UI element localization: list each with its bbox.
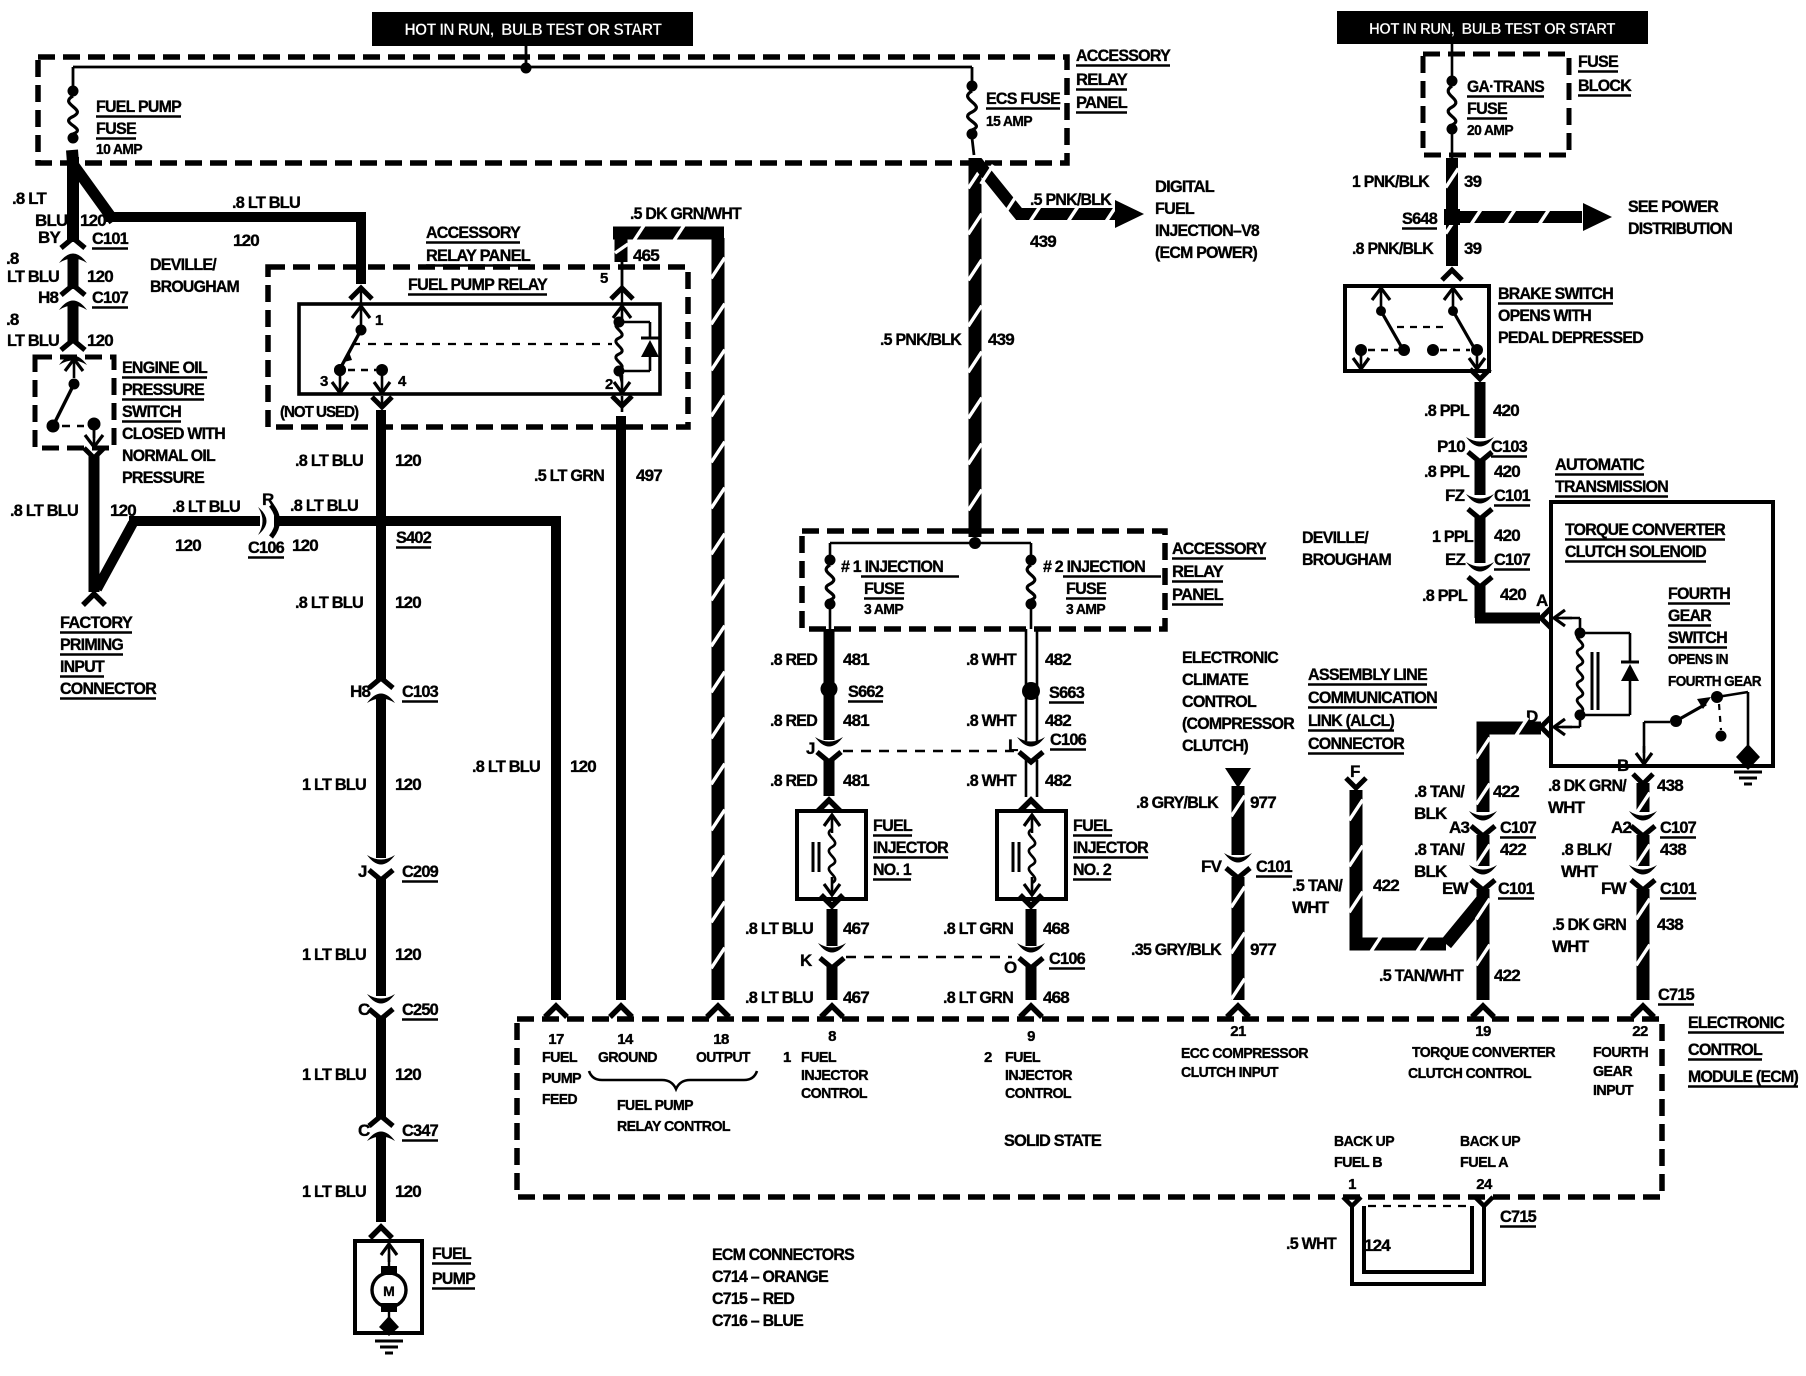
- svg-text:PANEL: PANEL: [1076, 93, 1127, 112]
- svg-text:L: L: [1008, 736, 1018, 755]
- svg-text:BACK UP: BACK UP: [1334, 1133, 1395, 1150]
- svg-text:RELAY CONTROL: RELAY CONTROL: [617, 1118, 730, 1135]
- relay coil: [613, 306, 631, 377]
- no.2 injection fuse 3 AMP: [1026, 543, 1037, 629]
- label ASSEMBLY LINE COMMUNICATION LINK (ALCL) CONNECTOR: [1308, 665, 1437, 754]
- label .5 DK GRN WHT 438: [1552, 915, 1683, 956]
- svg-text:C107: C107: [1500, 818, 1536, 837]
- label FUEL PUMP FUSE 10 AMP: [96, 97, 181, 158]
- svg-text:PUMP: PUMP: [432, 1269, 475, 1288]
- svg-text:BY: BY: [38, 228, 61, 247]
- wire end cup at ECM pin 17: [545, 1006, 567, 1017]
- svg-text:.8 WHT: .8 WHT: [966, 711, 1017, 730]
- svg-text:.8 RED: .8 RED: [770, 711, 817, 730]
- connector cup at fuel pump: [370, 1227, 392, 1238]
- svg-text:NORMAL OIL: NORMAL OIL: [122, 446, 215, 465]
- svg-text:O: O: [1004, 958, 1017, 977]
- ECC arrow terminal: [1225, 768, 1251, 788]
- svg-text:124: 124: [1364, 1236, 1391, 1255]
- svg-text:C103: C103: [402, 682, 438, 701]
- fuel pump fuse 10 AMP: [68, 67, 79, 144]
- svg-text:INJECTOR: INJECTOR: [873, 838, 948, 857]
- svg-text:481: 481: [843, 711, 869, 730]
- brake switch pole 1: [1353, 288, 1410, 369]
- svg-text:9: 9: [1027, 1028, 1035, 1045]
- connector cup at relay pin 5: [611, 288, 633, 299]
- svg-text:S662: S662: [848, 682, 883, 701]
- svg-text:1 LT BLU: 1 LT BLU: [302, 775, 366, 794]
- wire end cup at ECM pin 8: [821, 1006, 843, 1017]
- svg-text:OPENS WITH: OPENS WITH: [1498, 306, 1591, 325]
- svg-text:.8 PPL: .8 PPL: [1424, 462, 1469, 481]
- svg-text:GEAR: GEAR: [1593, 1063, 1633, 1080]
- svg-text:.8 LT BLU: .8 LT BLU: [232, 193, 300, 212]
- wire .8 TAN/BLK 422 striped from D to A3 C107: [1476, 718, 1541, 812]
- svg-text:FUEL: FUEL: [1005, 1049, 1040, 1066]
- svg-text:INJECTOR: INJECTOR: [1005, 1067, 1073, 1084]
- label FACTORY PRIMING INPUT CONNECTOR: [60, 613, 156, 699]
- wire end cup at ECM pin 21: [1227, 1006, 1249, 1017]
- labels .8 LT GRN 468 O C106: [943, 919, 1085, 1007]
- svg-text:HOT IN RUN, BULB TEST OR STAR: HOT IN RUN, BULB TEST OR START: [1369, 21, 1616, 38]
- wire from banner to bus: [521, 46, 532, 74]
- svg-text:PRIMING: PRIMING: [60, 635, 124, 654]
- wire .8 LT BLU between C107 and oil pressure switch: [68, 304, 79, 342]
- label # 2 INJECTION FUSE 3 AMP: [1043, 557, 1161, 618]
- svg-text:420: 420: [1494, 526, 1520, 545]
- connector cup at injector 1: [818, 800, 840, 811]
- svg-text:.8 TAN/: .8 TAN/: [1414, 782, 1465, 801]
- svg-text:BLK: BLK: [1414, 804, 1448, 823]
- svg-text:17: 17: [548, 1031, 564, 1048]
- label ACCESSORY RELAY PANEL (at fuel pump relay): [426, 223, 530, 266]
- ECM pin 8 label: [783, 1028, 869, 1102]
- svg-text:.5 DK GRN: .5 DK GRN: [1552, 915, 1626, 934]
- svg-text:B: B: [1617, 756, 1629, 775]
- ECM pin 22 label: [1593, 1023, 1648, 1099]
- svg-text:DIGITAL: DIGITAL: [1155, 177, 1214, 196]
- bus wire inside panel: [73, 66, 972, 69]
- ground at fuel pump: [375, 1341, 403, 1353]
- fuel pump box: [355, 1241, 422, 1333]
- connector C103 (P10): [1437, 437, 1527, 462]
- label .5 WHT 124: [1286, 1234, 1391, 1255]
- ground at fourth gear switch: [1734, 744, 1762, 784]
- connector C101 (BY): [59, 238, 87, 263]
- wire .8 LT BLU 120 from fuel pump fuse to fuel pump relay pin 1: [70, 150, 366, 284]
- fuel injector no.2 coil: [1013, 815, 1040, 895]
- svg-text:C715 – RED: C715 – RED: [712, 1289, 794, 1308]
- svg-text:NO. 1: NO. 1: [873, 860, 911, 879]
- svg-text:FEED: FEED: [542, 1091, 578, 1108]
- wire .5 DK GRN/WHT 465 from relay pin 5 to ECM pin 18: [613, 223, 725, 1000]
- svg-text:ECS FUSE: ECS FUSE: [986, 89, 1060, 108]
- svg-text:CLUTCH SOLENOID: CLUTCH SOLENOID: [1565, 542, 1706, 561]
- label .8 LT BLU 120 (horizontal run): [232, 193, 300, 250]
- svg-text:482: 482: [1045, 711, 1071, 730]
- svg-text:SWITCH: SWITCH: [122, 402, 181, 421]
- label BACK UP FUEL A 24: [1460, 1133, 1521, 1193]
- svg-text:120: 120: [292, 536, 318, 555]
- svg-text:.35 GRY/BLK: .35 GRY/BLK: [1131, 940, 1222, 959]
- svg-text:TORQUE CONVERTER: TORQUE CONVERTER: [1412, 1044, 1556, 1061]
- connector cup below brake switch: [1470, 369, 1490, 379]
- svg-text:.8 WHT: .8 WHT: [966, 650, 1017, 669]
- svg-text:MODULE (ECM): MODULE (ECM): [1688, 1067, 1798, 1086]
- svg-text:4: 4: [398, 373, 407, 390]
- label .8 RED 481 (lower): [770, 771, 869, 790]
- svg-text:CONTROL: CONTROL: [1182, 692, 1256, 711]
- svg-text:WHT: WHT: [1548, 798, 1586, 817]
- svg-text:RELAY: RELAY: [1076, 70, 1128, 89]
- wire .5 TAN/WHT 422 from EW to ECM pin 19: [1476, 889, 1490, 1000]
- svg-text:C101: C101: [1660, 879, 1696, 898]
- svg-text:# 2 INJECTION: # 2 INJECTION: [1043, 557, 1145, 576]
- label .8 PPL 420 (C103-C101): [1424, 462, 1520, 481]
- wire 1 LT BLU between C103 and C209: [376, 698, 386, 858]
- svg-text:RELAY PANEL: RELAY PANEL: [426, 246, 530, 265]
- svg-text:120: 120: [395, 593, 421, 612]
- svg-text:120: 120: [80, 211, 106, 230]
- label S402: [396, 528, 431, 548]
- svg-text:439: 439: [1030, 232, 1056, 251]
- label .5 TAN/WHT 422 (horizontal): [1379, 966, 1520, 985]
- svg-text:.8 LT BLU: .8 LT BLU: [295, 593, 363, 612]
- svg-text:120: 120: [395, 1065, 421, 1084]
- wire .8 PPL 420 to terminal A: [1475, 586, 1540, 618]
- wire 1 PPL 420 C101 to C107: [1475, 518, 1486, 563]
- wire .8 LT BLU 120 horizontal through C106 and S402: [129, 516, 560, 526]
- relay switch arm: [334, 325, 367, 377]
- label FUEL PUMP RELAY CONTROL: [617, 1097, 730, 1135]
- svg-text:.8: .8: [6, 249, 19, 268]
- svg-text:(ECM POWER): (ECM POWER): [1155, 243, 1257, 262]
- svg-text:.8 PPL: .8 PPL: [1422, 586, 1467, 605]
- wire from banner to fuse block: [1451, 44, 1454, 77]
- wire 1 PNK/BLK 39 from fuse block to S648: [1446, 158, 1459, 266]
- connector C101 (EW): [1442, 865, 1534, 899]
- svg-text:422: 422: [1494, 966, 1520, 985]
- svg-text:.8 LT: .8 LT: [12, 189, 47, 208]
- wire from relay pin 4 to fuel pump: [372, 396, 392, 680]
- svg-text:18: 18: [713, 1031, 729, 1048]
- svg-text:10 AMP: 10 AMP: [96, 142, 143, 158]
- connector C101 (FZ): [1445, 486, 1530, 519]
- label ELECTRONIC CONTROL MODULE (ECM): [1688, 1013, 1798, 1087]
- svg-text:ECC COMPRESSOR: ECC COMPRESSOR: [1181, 1045, 1309, 1062]
- svg-text:.8 LT BLU: .8 LT BLU: [295, 451, 363, 470]
- wire end at factory priming connector: [83, 594, 105, 605]
- svg-text:BACK UP: BACK UP: [1460, 1133, 1521, 1150]
- label DEVILLE/BROUGHAM (right): [1302, 528, 1392, 569]
- label .8 LT BLU BY / 120 at C101: [12, 189, 128, 249]
- label .5 TAN/ WHT 422: [1292, 876, 1399, 917]
- svg-text:.8 LT GRN: .8 LT GRN: [943, 988, 1013, 1007]
- svg-text:CONTROL: CONTROL: [1005, 1085, 1071, 1102]
- wire 1 LT BLU between C209 and C250: [376, 879, 386, 996]
- ECM pin 17 label: [542, 1031, 582, 1108]
- svg-text:.8 BLK/: .8 BLK/: [1561, 840, 1612, 859]
- svg-text:.8 TAN/: .8 TAN/: [1414, 840, 1465, 859]
- svg-text:3 AMP: 3 AMP: [1066, 602, 1106, 618]
- label ECM CONNECTORS legend: [712, 1245, 854, 1330]
- automatic transmission box: [1551, 502, 1773, 766]
- fuse block box: [1423, 54, 1569, 155]
- svg-text:TRANSMISSION: TRANSMISSION: [1555, 477, 1668, 496]
- svg-text:.8 LT BLU: .8 LT BLU: [472, 757, 540, 776]
- svg-text:977: 977: [1250, 940, 1276, 959]
- svg-text:CLUTCH INPUT: CLUTCH INPUT: [1181, 1064, 1278, 1081]
- wire .8 LT BLU 467 from injector 1 to ECM pin 8: [827, 909, 838, 1000]
- labels .8 RED 481 S662: [770, 650, 883, 730]
- svg-text:1 LT BLU: 1 LT BLU: [302, 1065, 366, 1084]
- svg-text:# 1 INJECTION: # 1 INJECTION: [841, 557, 943, 576]
- svg-text:GEAR: GEAR: [1668, 606, 1711, 625]
- label 1 LT BLU 120 (above pump): [302, 1182, 421, 1201]
- label .8 WHT 482 (lower): [966, 771, 1071, 790]
- wire end cup at ECM pin 22: [1632, 1006, 1654, 1017]
- svg-text:C107: C107: [92, 288, 128, 307]
- svg-text:.8 PPL: .8 PPL: [1424, 401, 1469, 420]
- dashed connector line J to L: [843, 750, 1014, 752]
- svg-text:F: F: [1350, 762, 1360, 781]
- wire .8 LT BLU 120 to ECM pin 17 (fuel pump feed): [551, 516, 561, 1000]
- svg-text:420: 420: [1493, 401, 1519, 420]
- svg-text:.8 DK GRN/: .8 DK GRN/: [1548, 776, 1627, 795]
- labels .8 WHT 482 S663: [966, 650, 1084, 730]
- svg-text:420: 420: [1500, 585, 1526, 604]
- svg-text:FUEL: FUEL: [432, 1244, 471, 1263]
- brace fuel pump relay control: [589, 1071, 757, 1089]
- svg-text:5: 5: [600, 270, 608, 287]
- accessory relay panel box (top): [38, 57, 1067, 163]
- connector C107 (A3): [1449, 811, 1536, 838]
- svg-text:INJECTOR: INJECTOR: [1073, 838, 1148, 857]
- splice S648: [1402, 209, 1460, 229]
- svg-text:INJECTOR: INJECTOR: [801, 1067, 869, 1084]
- svg-text:LINK (ALCL): LINK (ALCL): [1308, 711, 1394, 730]
- svg-text:.5 WHT: .5 WHT: [1286, 1234, 1337, 1253]
- svg-text:.8 RED: .8 RED: [770, 650, 817, 669]
- accessory relay panel box (fuel pump relay): [268, 267, 688, 427]
- svg-text:C101: C101: [1494, 486, 1530, 505]
- label GA-TRANS FUSE 20 AMP: [1467, 77, 1544, 139]
- label DIGITAL FUEL INJECTION-V8 (ECM POWER): [1155, 177, 1259, 262]
- wire .8 BLK/WHT 438 from C107 to C101 (FW): [1636, 835, 1650, 866]
- svg-text:.8 WHT: .8 WHT: [966, 771, 1017, 790]
- svg-text:INJECTION–V8: INJECTION–V8: [1155, 221, 1259, 240]
- svg-text:C715: C715: [1658, 985, 1694, 1004]
- svg-text:FUEL: FUEL: [873, 816, 912, 835]
- svg-text:FUSE: FUSE: [1467, 99, 1507, 118]
- svg-text:NO. 2: NO. 2: [1073, 860, 1111, 879]
- svg-text:SWITCH: SWITCH: [1668, 628, 1727, 647]
- fourth gear switch: [1636, 691, 1748, 764]
- svg-text:C106: C106: [1049, 949, 1085, 968]
- label BRAKE SWITCH OPENS WITH PEDAL DEPRESSED: [1498, 284, 1643, 347]
- relay pin 1 terminal: [352, 306, 383, 329]
- svg-text:422: 422: [1373, 876, 1399, 895]
- svg-text:C106: C106: [1050, 730, 1086, 749]
- svg-text:.5 TAN/: .5 TAN/: [1292, 876, 1343, 895]
- svg-text:C: C: [358, 1121, 370, 1140]
- svg-text:(COMPRESSOR: (COMPRESSOR: [1182, 714, 1294, 733]
- connector cup at relay pin 2: [612, 396, 632, 406]
- svg-text:FV: FV: [1201, 857, 1223, 876]
- TCC solenoid coil: [1562, 618, 1598, 721]
- svg-text:1 PNK/BLK: 1 PNK/BLK: [1352, 172, 1430, 191]
- svg-text:1: 1: [783, 1049, 791, 1066]
- svg-text:S648: S648: [1402, 209, 1437, 228]
- label .8 PPL 420 A: [1422, 585, 1548, 610]
- wire .8 LT GRN 468 from injector 2 to ECM pin 9: [1026, 909, 1037, 1000]
- svg-text:120: 120: [570, 757, 596, 776]
- ECM pin 14 label: [598, 1031, 658, 1066]
- label .8 DK GRN/ WHT 438: [1548, 776, 1683, 817]
- labels .8 LT BLU 467 K: [745, 919, 869, 1007]
- label SOLID STATE: [1004, 1131, 1101, 1150]
- svg-text:21: 21: [1230, 1023, 1246, 1040]
- relay pin 2 terminal: [605, 371, 630, 393]
- svg-text:C101: C101: [1498, 879, 1534, 898]
- svg-text:497: 497: [636, 466, 662, 485]
- label .8 PNK/BLK 39: [1352, 239, 1482, 258]
- label FUSE BLOCK: [1578, 52, 1632, 96]
- svg-text:120: 120: [395, 1182, 421, 1201]
- label .8 LT BLU 120 above oil pressure switch: [6, 310, 113, 350]
- fuel injector no.1 box: [797, 811, 866, 899]
- wire .8 DK GRN/WHT 438 from B to A2 C107: [1636, 783, 1650, 813]
- connector C107 (EZ): [1445, 550, 1530, 587]
- svg-text:BLOCK: BLOCK: [1578, 76, 1632, 95]
- svg-text:C716 – BLUE: C716 – BLUE: [712, 1311, 803, 1330]
- label .8 LT BLU 120 (above C103): [295, 593, 421, 612]
- label .5 PNK/BLK 439 (arrow): [1030, 190, 1112, 251]
- label AUTOMATIC TRANSMISSION: [1555, 455, 1668, 497]
- wire end cup at ECM pin 19: [1472, 1006, 1494, 1017]
- connector C106 (J): [806, 737, 843, 762]
- ALCL terminal F: [1346, 762, 1366, 788]
- svg-text:INPUT: INPUT: [60, 657, 105, 676]
- svg-text:J: J: [358, 862, 367, 881]
- svg-text:.5 PNK/BLK: .5 PNK/BLK: [880, 330, 962, 349]
- svg-text:CONNECTOR: CONNECTOR: [60, 679, 156, 698]
- wire .8 LT BLU to factory priming input connector: [94, 455, 133, 592]
- svg-text:LT BLU: LT BLU: [7, 267, 59, 286]
- wire .5 LT GRN 497 from relay pin 2 to ECM pin 14: [621, 396, 622, 1000]
- svg-text:OUTPUT: OUTPUT: [696, 1049, 750, 1066]
- label .8 TAN/ BLK 422: [1414, 782, 1519, 823]
- svg-text:FACTORY: FACTORY: [60, 613, 133, 632]
- svg-text:C103: C103: [1491, 437, 1527, 456]
- label C715 (jumper): [1500, 1207, 1536, 1227]
- labels around C106: .8 LT BLU R 120 C106 .8 LT BLU 120: [172, 490, 358, 558]
- svg-text:R: R: [262, 490, 274, 509]
- svg-text:2: 2: [984, 1049, 992, 1066]
- wire .5 DK GRN WHT 438 from FW to ECM pin 22: [1636, 889, 1650, 1000]
- svg-text:482: 482: [1045, 650, 1071, 669]
- wire .8 WHT 482 to injector 2 (double line): [1026, 760, 1037, 797]
- svg-text:FOURTH: FOURTH: [1668, 584, 1730, 603]
- svg-text:22: 22: [1632, 1023, 1648, 1040]
- label FUEL PUMP RELAY: [408, 275, 548, 295]
- terminal A cup and arrow: [1541, 608, 1572, 628]
- svg-text:GA·TRANS: GA·TRANS: [1467, 77, 1544, 96]
- svg-text:COMMUNICATION: COMMUNICATION: [1308, 688, 1437, 707]
- label .8 GRY/BLK 977: [1136, 793, 1276, 812]
- label 1 PNK/BLK 39: [1352, 172, 1482, 191]
- label 1 LT BLU 120 (above C347): [302, 1065, 421, 1084]
- connector C101 (FV): [1201, 853, 1292, 878]
- svg-text:FUEL PUMP: FUEL PUMP: [617, 1097, 694, 1114]
- svg-text:FUEL: FUEL: [801, 1049, 836, 1066]
- label (NOT USED): [280, 404, 359, 421]
- svg-text:CONTROL: CONTROL: [801, 1085, 867, 1102]
- svg-text:C714 – ORANGE: C714 – ORANGE: [712, 1267, 828, 1286]
- connector C106 (R): [258, 505, 278, 537]
- relay linkage dashed line: [352, 343, 612, 345]
- connector C209 (J): [358, 855, 438, 882]
- svg-text:WHT: WHT: [1561, 862, 1599, 881]
- label ECS FUSE 15 AMP: [986, 89, 1060, 130]
- svg-text:120: 120: [395, 775, 421, 794]
- wire .5 PNK/BLK 439 from ECS fuse down to injection fuses: [968, 158, 982, 537]
- wire 1 LT BLU to fuel pump: [376, 1136, 386, 1222]
- label SEE POWER DISTRIBUTION: [1628, 197, 1732, 238]
- wire .8 WHT 482 from no.2 fuse (double line) with splice S663: [1022, 629, 1040, 741]
- svg-text:.8 LT BLU: .8 LT BLU: [10, 501, 78, 520]
- svg-text:438: 438: [1660, 840, 1686, 859]
- connector cup below injector 2: [1020, 895, 1042, 906]
- label FOURTH GEAR SWITCH OPENS IN FOURTH GEAR: [1668, 584, 1762, 690]
- svg-text:ELECTRONIC: ELECTRONIC: [1688, 1013, 1784, 1032]
- svg-text:.8 LT BLU: .8 LT BLU: [172, 497, 240, 516]
- svg-text:LT BLU: LT BLU: [7, 331, 59, 350]
- svg-text:FOURTH: FOURTH: [1593, 1044, 1648, 1061]
- injection fuse bus: [830, 537, 1031, 549]
- C715 jumper loop: [1343, 1197, 1493, 1284]
- connector C106 (O): [1017, 943, 1045, 968]
- svg-text:.8 PNK/BLK: .8 PNK/BLK: [1352, 239, 1434, 258]
- svg-text:CONNECTOR: CONNECTOR: [1308, 734, 1404, 753]
- connector C250 (C): [358, 994, 438, 1020]
- svg-text:19: 19: [1475, 1023, 1491, 1040]
- svg-text:ACCESSORY: ACCESSORY: [1076, 46, 1171, 65]
- svg-text:FOURTH GEAR: FOURTH GEAR: [1668, 674, 1762, 690]
- label ACCESSORY RELAY PANEL (injection fuses): [1172, 539, 1267, 605]
- svg-text:FUEL B: FUEL B: [1334, 1154, 1383, 1171]
- label C715: [1658, 985, 1694, 1005]
- label 1 LT BLU 120 (above C250): [302, 945, 421, 964]
- svg-text:FUEL: FUEL: [542, 1049, 577, 1066]
- label DEVILLE/BROUGHAM (left): [150, 255, 240, 296]
- svg-text:.8 LT BLU: .8 LT BLU: [745, 919, 813, 938]
- wire end cup at ECM pin 14: [610, 1006, 632, 1017]
- svg-text:C101: C101: [92, 229, 128, 248]
- svg-text:439: 439: [988, 330, 1014, 349]
- svg-text:SOLID STATE: SOLID STATE: [1004, 1131, 1101, 1150]
- label .8 BLK/ WHT 438: [1561, 840, 1686, 881]
- power banner left: HOT IN RUN, BULB TEST OR START: [372, 12, 693, 46]
- connector cup at relay pin 1: [350, 288, 372, 305]
- svg-text:BROUGHAM: BROUGHAM: [150, 277, 240, 296]
- svg-text:C107: C107: [1494, 550, 1530, 569]
- svg-text:468: 468: [1043, 988, 1069, 1007]
- brake switch box: [1345, 286, 1489, 371]
- label ELECTRONIC CLIMATE CONTROL (COMPRESSOR CLUTCH): [1182, 648, 1294, 755]
- label 1 LT BLU 120 (above C209): [302, 775, 421, 794]
- svg-text:120: 120: [233, 231, 259, 250]
